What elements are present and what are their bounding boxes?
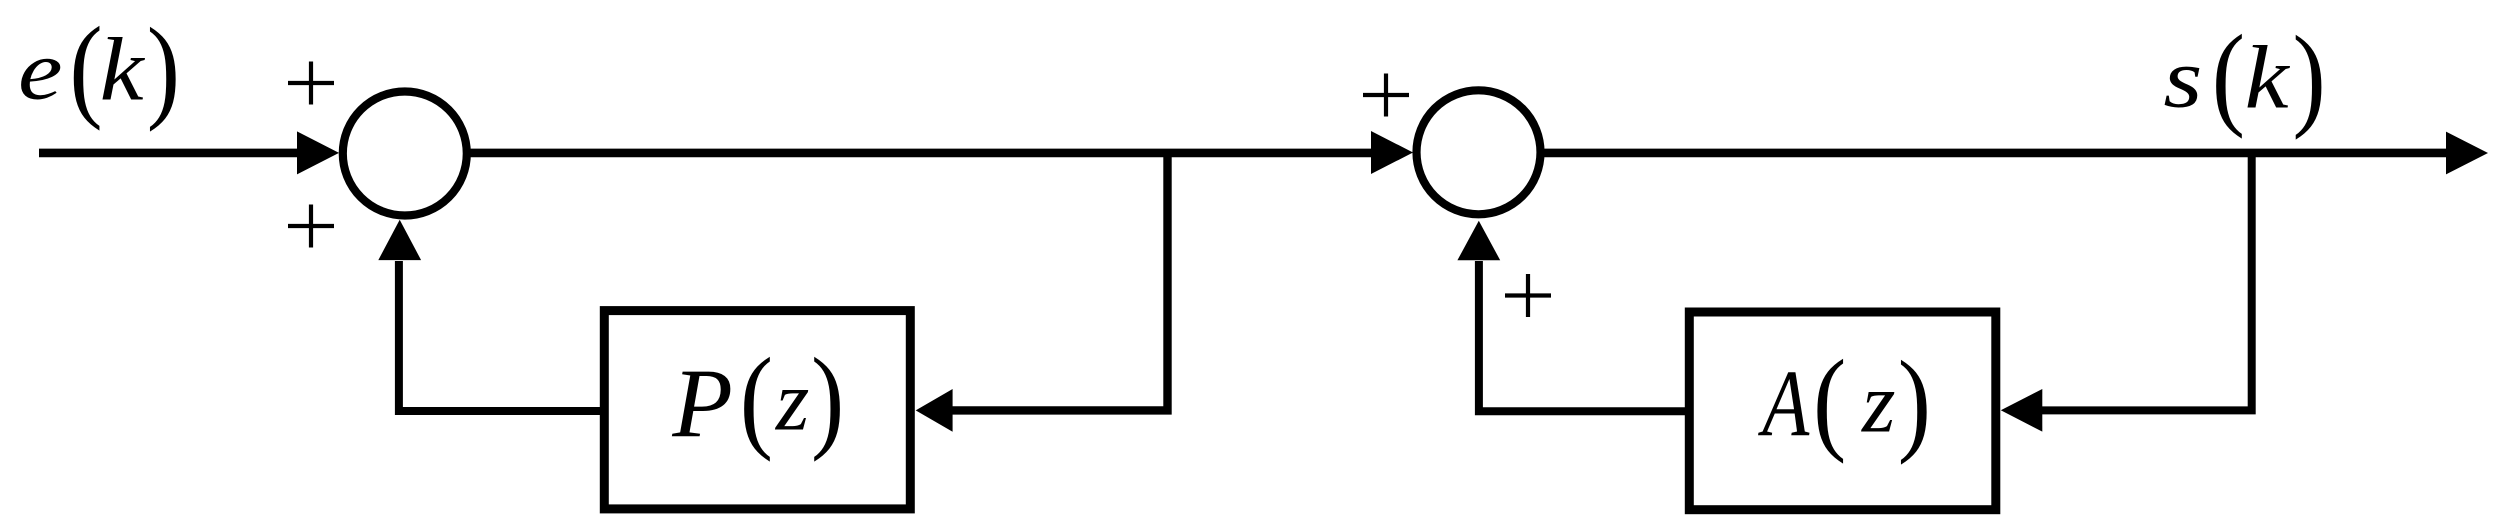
arrowhead into summer S2	[1371, 131, 1413, 174]
wire input e(k) to summer S1	[39, 149, 300, 158]
arrowhead output	[2446, 132, 2488, 175]
arrowhead into P(z) right side	[916, 389, 953, 432]
wire branch from output down and left to A(z)	[2041, 153, 2252, 411]
plus sign (lower input of S2)	[1505, 274, 1551, 317]
node e(k) input label	[18, 5, 180, 133]
plus sign (upper input of S1)	[288, 62, 334, 105]
node s(k) output label	[2163, 12, 2325, 140]
svg-text:): )	[811, 335, 844, 462]
svg-text:(: (	[1813, 338, 1846, 465]
arrowhead into A(z) right side	[2001, 389, 2043, 432]
svg-text:(: (	[740, 335, 773, 462]
svg-text:k: k	[100, 21, 146, 120]
svg-text:A: A	[1758, 351, 1811, 456]
wire S1 to summer S2	[467, 149, 1375, 158]
svg-text:s: s	[2163, 32, 2202, 126]
svg-text:z: z	[1861, 355, 1895, 451]
svg-text:(: (	[2212, 12, 2245, 139]
svg-text:k: k	[2245, 29, 2291, 128]
plus sign (lower input of S1)	[288, 205, 334, 248]
summing junction S2	[1417, 90, 1541, 214]
summing junction S1	[343, 92, 467, 216]
svg-text:e: e	[18, 24, 63, 118]
svg-text:): )	[147, 6, 180, 133]
svg-text:P: P	[671, 349, 732, 458]
svg-text:(: (	[69, 5, 102, 132]
svg-text:): )	[2293, 14, 2326, 141]
wire A(z) output left and up to S2	[1479, 261, 1689, 411]
wire S2 to output s(k)	[1540, 149, 2450, 158]
arrowhead into summer S1	[297, 131, 339, 174]
wire P(z) output left and up to S1	[399, 261, 604, 411]
arrowhead up into S1 bottom	[378, 220, 421, 260]
block P(z)	[604, 311, 910, 509]
wire branch down and left to P(z)	[951, 153, 1168, 411]
svg-text:z: z	[775, 353, 809, 449]
plus sign (upper input of S2)	[1363, 74, 1409, 117]
svg-text:): )	[1898, 339, 1931, 466]
block A(z)	[1689, 312, 1996, 510]
arrowhead up into S2 bottom	[1457, 221, 1500, 261]
